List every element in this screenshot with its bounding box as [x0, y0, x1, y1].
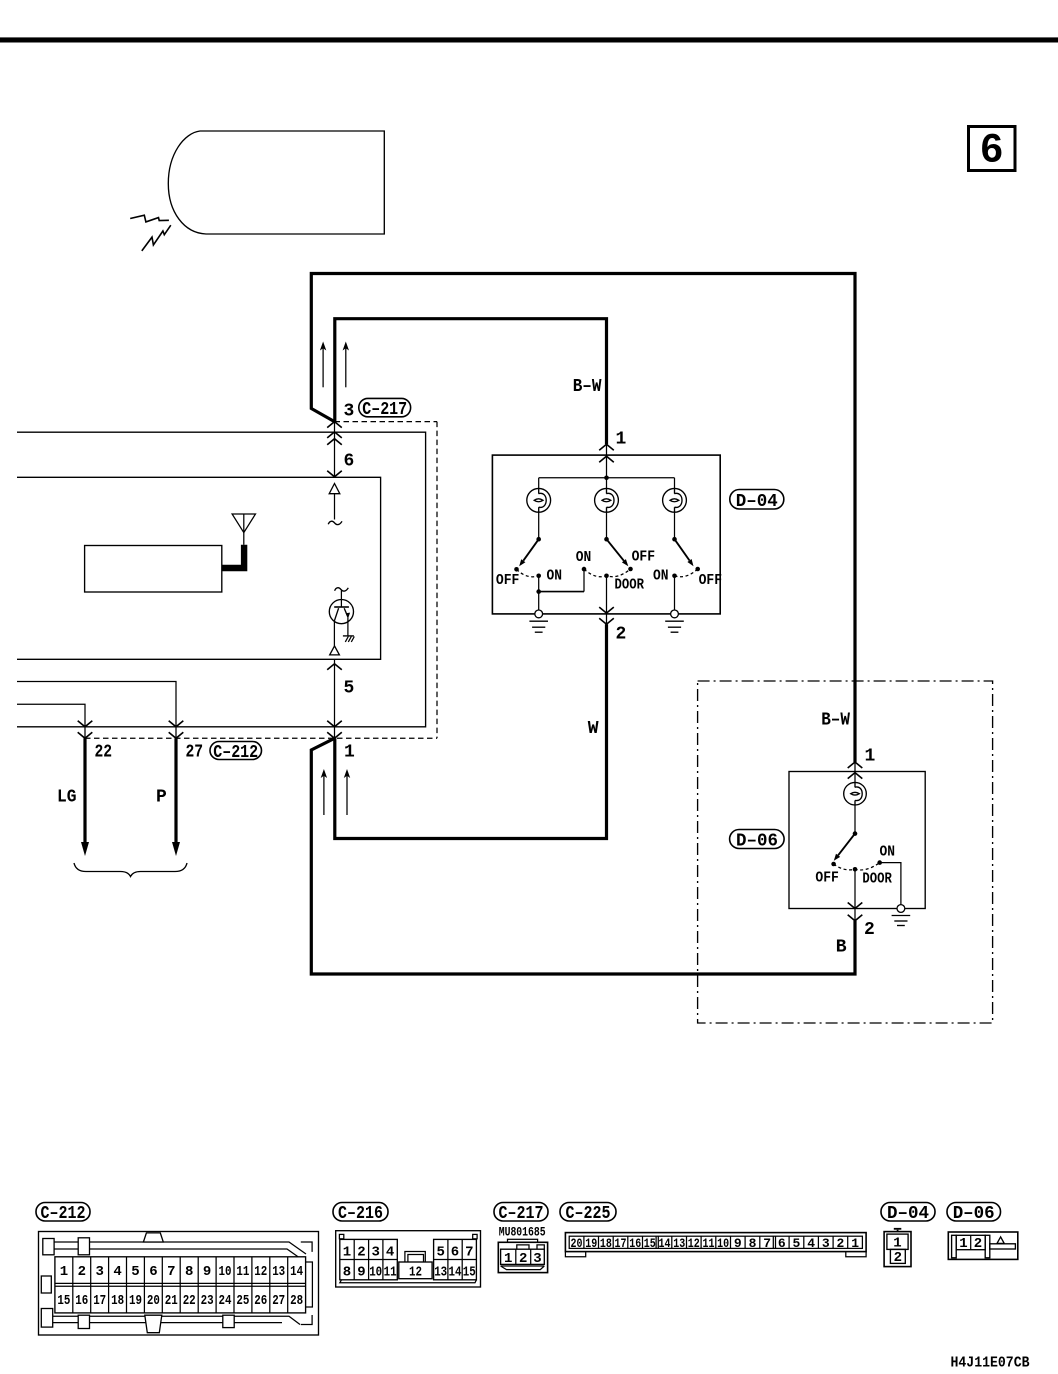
svg-text:9: 9	[203, 1264, 211, 1280]
svg-text:10: 10	[219, 1264, 232, 1280]
right ground	[674, 576, 676, 610]
left switch arm	[523, 539, 538, 561]
svg-text:B–W: B–W	[821, 711, 850, 731]
svg-text:6: 6	[451, 1244, 459, 1260]
svg-text:ON: ON	[576, 549, 592, 566]
C-212 right side latch	[306, 1262, 313, 1307]
D-06 switch arm	[838, 834, 855, 856]
indicator bulb	[340, 591, 342, 608]
receiver module box	[85, 546, 222, 593]
C-212 connector outer	[39, 1232, 319, 1336]
svg-text:2: 2	[894, 1250, 902, 1266]
D-06 ON contact	[877, 860, 882, 865]
svg-text:1: 1	[343, 1244, 351, 1260]
junction 3 chevrons	[327, 422, 342, 428]
svg-text:OFF: OFF	[815, 870, 839, 887]
svg-text:4: 4	[113, 1264, 121, 1280]
C-212 pin grid	[55, 1257, 306, 1313]
svg-text:23: 23	[201, 1293, 214, 1309]
outer loop wire B-W (top)	[311, 274, 855, 763]
svg-text:B: B	[836, 938, 847, 958]
svg-text:15: 15	[57, 1293, 70, 1309]
D-06 connector bar	[990, 1244, 1016, 1249]
D-04 connector top tab	[894, 1228, 902, 1230]
D-04 pin2 chevrons	[599, 607, 614, 613]
bulb lower lead + triangle	[333, 621, 335, 646]
svg-text:1: 1	[344, 743, 355, 763]
svg-text:7: 7	[167, 1264, 175, 1280]
svg-text:2: 2	[864, 920, 875, 940]
svg-text:3: 3	[344, 402, 355, 422]
svg-text:20: 20	[571, 1236, 583, 1251]
svg-text:5: 5	[792, 1236, 800, 1251]
switch common dots	[536, 537, 541, 542]
D-06 pin1 lead	[854, 762, 856, 782]
C-212 bottom tabs	[41, 1276, 51, 1293]
svg-text:18: 18	[111, 1293, 124, 1309]
D-06 option dash-dot box	[698, 681, 993, 1023]
svg-text:28: 28	[290, 1293, 303, 1309]
D-06 luggage lamp unit box	[789, 772, 925, 909]
D-04 connector cell 1	[887, 1234, 908, 1249]
antenna	[232, 514, 255, 533]
D-06 OFF contact	[831, 862, 836, 867]
C-212 pill label	[36, 1203, 90, 1222]
svg-text:1: 1	[851, 1236, 859, 1251]
left ground	[538, 592, 540, 610]
D-04 pin1 chevrons	[599, 444, 614, 450]
svg-text:8: 8	[185, 1264, 193, 1280]
svg-text:C–216: C–216	[338, 1203, 383, 1224]
bulb break tilde	[335, 588, 349, 591]
receiver inner box	[17, 477, 381, 659]
inner loop wire W (from D-04 pin2)	[335, 624, 607, 838]
C-217 bottom tray	[501, 1266, 545, 1270]
ETACS unit outer box	[17, 432, 426, 727]
svg-text:OFF: OFF	[496, 572, 520, 589]
svg-text:C–217: C–217	[499, 1203, 544, 1224]
svg-text:14: 14	[290, 1264, 303, 1280]
antenna thick lead	[222, 545, 244, 568]
svg-text:7: 7	[763, 1236, 771, 1251]
svg-text:10: 10	[717, 1236, 729, 1251]
D-06 connector outer	[948, 1232, 1018, 1259]
C-216 pill label	[333, 1203, 388, 1222]
svg-text:25: 25	[236, 1293, 249, 1309]
middle switch DOOR contact	[604, 574, 609, 579]
svg-text:7: 7	[465, 1244, 473, 1260]
D-04 dome lamp unit box	[492, 455, 720, 614]
right switch arc	[675, 569, 698, 577]
chassis ground at bulb	[347, 618, 349, 636]
svg-text:D–04: D–04	[736, 491, 778, 512]
middle switch OFF contact	[628, 567, 633, 572]
svg-text:3: 3	[95, 1264, 103, 1280]
C-216 cell 12	[399, 1262, 432, 1279]
svg-text:OFF: OFF	[699, 572, 723, 589]
C-212 top tabs	[43, 1239, 54, 1255]
C-225 cells	[569, 1236, 862, 1248]
svg-text:26: 26	[254, 1293, 267, 1309]
svg-text:12: 12	[409, 1265, 422, 1281]
LG wire	[83, 738, 86, 843]
middle switch arc	[584, 569, 631, 577]
svg-text:11: 11	[384, 1265, 397, 1281]
svg-text:19: 19	[585, 1236, 597, 1251]
D-06 lamp	[844, 782, 867, 805]
C-217 pill label	[359, 398, 411, 416]
flow arrows near junction 3	[322, 348, 324, 387]
left switch OFF contact	[514, 567, 519, 572]
svg-text:6: 6	[981, 127, 1003, 171]
svg-text:DOOR: DOOR	[615, 577, 645, 594]
dashed boundary right	[436, 422, 438, 739]
D-04 connector cell 2	[890, 1249, 905, 1263]
svg-text:2: 2	[357, 1244, 365, 1260]
D-06 connector triangle	[997, 1237, 1004, 1244]
pin 27 chevrons	[169, 721, 184, 727]
dashed connector boundary top C-217	[335, 421, 438, 423]
D-06 connector right bar	[985, 1235, 990, 1258]
svg-text:22: 22	[183, 1293, 196, 1309]
svg-text:4: 4	[807, 1236, 815, 1251]
radio signal bolt 2	[142, 225, 171, 251]
radio signal bolt 1	[130, 215, 169, 222]
C-216 left cells	[340, 1239, 398, 1279]
D-06 pill label (bottom)	[947, 1203, 1001, 1222]
inner loop wire B-W (to D-04 pin1)	[335, 319, 607, 445]
svg-text:2: 2	[616, 625, 627, 645]
junction 1 chevrons	[327, 721, 342, 727]
svg-text:27: 27	[186, 743, 204, 763]
svg-text:13: 13	[434, 1265, 447, 1281]
svg-text:C–212: C–212	[213, 742, 258, 763]
svg-text:DOOR: DOOR	[862, 871, 892, 888]
svg-text:8: 8	[343, 1265, 351, 1281]
svg-text:1: 1	[504, 1251, 512, 1267]
D-04 lamp right	[663, 488, 687, 512]
C-217 connector outer	[498, 1242, 547, 1272]
svg-text:11: 11	[236, 1264, 249, 1280]
right switch ON contact	[672, 574, 677, 579]
svg-text:11: 11	[703, 1236, 715, 1251]
D-06 switch arc	[834, 863, 880, 870]
svg-text:13: 13	[272, 1264, 285, 1280]
wire to pin 27	[17, 682, 176, 740]
svg-text:17: 17	[93, 1293, 106, 1309]
svg-text:D–06: D–06	[736, 831, 778, 852]
D-04 bus node	[604, 476, 609, 481]
svg-text:5: 5	[131, 1264, 139, 1280]
C-217 pill label	[494, 1203, 548, 1222]
svg-text:16: 16	[629, 1236, 641, 1251]
svg-text:1: 1	[616, 430, 627, 450]
svg-text:5: 5	[436, 1244, 444, 1260]
svg-text:OFF: OFF	[632, 549, 656, 566]
svg-text:6: 6	[149, 1264, 157, 1280]
D-06 connector cells	[956, 1235, 985, 1249]
svg-text:12: 12	[688, 1236, 700, 1251]
svg-text:21: 21	[165, 1293, 178, 1309]
C-216 center bump	[405, 1252, 425, 1263]
svg-text:16: 16	[75, 1293, 88, 1309]
svg-text:1: 1	[60, 1264, 68, 1280]
C-212 pill label	[210, 742, 262, 760]
C-225 connector outer	[565, 1233, 866, 1252]
svg-text:20: 20	[147, 1293, 160, 1309]
svg-text:6: 6	[778, 1236, 786, 1251]
svg-text:LG: LG	[57, 788, 77, 808]
svg-text:9: 9	[357, 1265, 365, 1281]
C-217 connector top tab	[508, 1239, 538, 1242]
svg-text:C–225: C–225	[566, 1203, 611, 1224]
D-04 pin1 lead	[606, 444, 608, 488]
D-06 ground	[897, 905, 905, 913]
svg-text:14: 14	[449, 1265, 462, 1281]
D-06 pin1 chevrons	[848, 762, 863, 768]
svg-text:D–04: D–04	[887, 1203, 929, 1224]
svg-text:P: P	[156, 788, 167, 808]
dashed boundary bottom C-212	[85, 737, 437, 739]
svg-text:MU801685: MU801685	[499, 1225, 546, 1240]
break tilde	[328, 521, 342, 524]
svg-text:ON: ON	[547, 568, 563, 585]
svg-text:13: 13	[673, 1236, 685, 1251]
lamp leads	[538, 512, 540, 539]
C-216 bottom tray	[340, 1280, 477, 1283]
D-06 connector left bar	[952, 1235, 957, 1258]
top border bar	[0, 37, 1058, 42]
svg-text:15: 15	[463, 1265, 476, 1281]
C-225 pill label	[560, 1203, 616, 1222]
underbrace	[74, 863, 187, 877]
svg-text:ON: ON	[880, 844, 896, 861]
C-217 cells	[501, 1249, 545, 1264]
C-212 housing top band	[47, 1242, 306, 1254]
svg-text:2: 2	[974, 1236, 982, 1252]
D-06 pin2 chevrons	[848, 903, 863, 909]
P wire	[174, 738, 177, 843]
right switch OFF contact	[695, 567, 700, 572]
svg-text:19: 19	[129, 1293, 142, 1309]
svg-text:17: 17	[615, 1236, 627, 1251]
svg-text:8: 8	[749, 1236, 757, 1251]
svg-text:12: 12	[254, 1264, 267, 1280]
svg-text:2: 2	[78, 1264, 86, 1280]
D-06 pin2 lead	[854, 869, 856, 921]
flow arrows near junction 1	[323, 776, 325, 816]
outer loop wire (bottom, via D-06 pin2)	[311, 738, 855, 974]
left switch ON contact	[536, 574, 541, 579]
page number box 6	[969, 127, 1016, 171]
D-06 lamp lead	[854, 805, 856, 834]
svg-text:ON: ON	[653, 568, 669, 585]
svg-text:15: 15	[644, 1236, 656, 1251]
D-04 pill label	[730, 490, 784, 510]
svg-text:B–W: B–W	[573, 377, 602, 397]
svg-text:14: 14	[659, 1236, 671, 1251]
svg-text:4: 4	[386, 1244, 394, 1260]
svg-text:1: 1	[959, 1236, 967, 1252]
pin 5 double arrow	[334, 659, 336, 738]
svg-text:C–217: C–217	[362, 399, 407, 420]
pin 22 chevrons	[78, 721, 93, 727]
C-217 inner tabs	[517, 1245, 529, 1249]
wire to pin 22	[17, 704, 85, 739]
svg-text:3: 3	[371, 1244, 379, 1260]
svg-text:24: 24	[219, 1293, 232, 1309]
D-06 DOOR contact	[853, 867, 858, 872]
svg-text:5: 5	[344, 679, 355, 699]
svg-text:3: 3	[533, 1251, 541, 1267]
right switch arm	[675, 539, 690, 560]
C-216 right cells	[434, 1239, 477, 1279]
left ON wire to middle ON	[538, 576, 540, 592]
svg-text:27: 27	[272, 1293, 285, 1309]
D-04 lamp middle	[595, 488, 619, 512]
D-04 connector outer	[884, 1232, 911, 1267]
svg-text:6: 6	[344, 452, 355, 472]
svg-text:H4J11E07CB: H4J11E07CB	[951, 1356, 1030, 1372]
svg-text:10: 10	[369, 1265, 382, 1281]
svg-text:2: 2	[519, 1251, 527, 1267]
svg-text:D–06: D–06	[953, 1203, 995, 1224]
svg-text:22: 22	[95, 743, 113, 763]
D-06 ON to ground wire	[880, 863, 901, 905]
D-04 pin2 lead	[606, 576, 608, 624]
svg-text:3: 3	[822, 1236, 830, 1251]
continuation triangle	[329, 484, 340, 494]
svg-text:W: W	[588, 719, 599, 739]
D-06 pill label	[730, 830, 785, 849]
D-04 pill label (bottom)	[881, 1203, 935, 1222]
D-04 lamp left	[527, 488, 551, 512]
C-216 connector outer	[336, 1231, 481, 1287]
C-225 feet	[565, 1252, 585, 1257]
left switch arc	[517, 569, 539, 577]
middle switch arm	[607, 539, 624, 561]
keyless transmitter capsule	[168, 131, 384, 234]
pin 6 double arrow	[334, 422, 336, 478]
svg-text:2: 2	[836, 1236, 844, 1251]
C-216 corner squares	[339, 1234, 343, 1238]
svg-text:1: 1	[865, 747, 876, 767]
svg-text:18: 18	[600, 1236, 612, 1251]
D-04 bus line	[539, 477, 675, 479]
svg-text:9: 9	[734, 1236, 742, 1251]
C-212 housing bottom band	[47, 1316, 300, 1324]
svg-text:C–212: C–212	[41, 1203, 86, 1224]
